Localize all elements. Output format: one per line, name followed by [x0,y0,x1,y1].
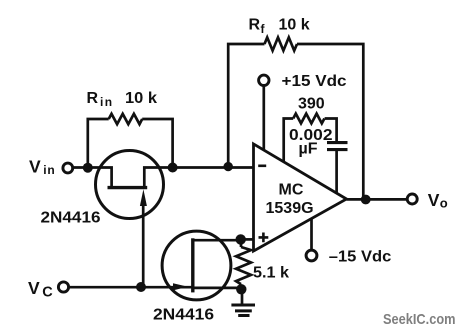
resistor 390 zigzag [293,114,324,124]
svg-text:R: R [249,17,261,34]
wire -15 Vdc stub from U1 bottom edge [310,219,313,250]
wire Vin input to JFET Q1 source lead [74,168,112,187]
terminal Vo [407,194,417,204]
svg-text:+15 Vdc: +15 Vdc [282,73,347,90]
JFET Q2 channel bar [191,238,194,292]
svg-text:SeekIC.com: SeekIC.com [383,311,456,328]
ground symbol [231,305,255,316]
junction dot Rin right / Q1 drain [168,163,178,173]
wire + node to U1 noninverting input [241,238,254,241]
svg-text:MC: MC [279,181,304,198]
wire to ground [241,289,244,303]
capacitor 0.002 uF plates [327,143,348,150]
JFET Q2 circle [162,231,231,300]
svg-text:in: in [100,95,113,109]
plus sign U1 [259,233,269,243]
junction dot ground node [236,284,246,294]
wire JFET Q1 drain lead to inverting input of U1 [144,168,253,188]
svg-text:1539G: 1539G [266,200,314,217]
svg-text:o: o [440,195,448,210]
svg-text:in: in [43,163,55,177]
svg-text:2N4416: 2N4416 [153,307,214,324]
resistor 390 compensation [284,119,337,162]
svg-text:R: R [87,90,99,107]
svg-text:10 k: 10 k [125,90,157,107]
resistor Rin zigzag [109,114,143,124]
svg-text:2N4416: 2N4416 [41,210,101,227]
svg-text:V: V [28,278,40,298]
JFET Q2 gate arrowhead [173,283,188,290]
resistor Rin 10 k loop [88,119,173,168]
resistor Rf zigzag [265,37,297,50]
wire JFET Q2 drain lead to + node [193,239,241,242]
svg-text:V: V [428,190,440,210]
JFET Q1 channel bar [108,186,148,189]
svg-text:V: V [29,157,41,177]
svg-text:–15 Vdc: –15 Vdc [329,249,392,266]
svg-text:390: 390 [298,95,325,112]
wire capacitor to U1 top edge [335,151,338,194]
terminal Vc [58,282,68,292]
wire output [347,198,408,201]
junction dot Vin/Rin left [83,163,93,173]
op-amp U1 MC1539G [254,144,347,251]
terminal Vin [63,163,73,173]
svg-text:µF: µF [299,141,318,158]
feedback loop wire Rf [228,44,363,200]
svg-text:C: C [42,285,53,301]
minus sign U1 [258,165,266,168]
svg-text:10 k: 10 k [279,17,310,34]
wire JFET Q2 source lead to ground node [193,287,242,290]
wire +15 Vdc to U1 top edge [262,86,265,151]
junction dot + node [236,234,246,244]
junction dot Vc / Q1 gate [136,282,146,292]
terminal +15 Vdc [259,75,269,85]
terminal -15 Vdc [306,250,317,261]
wire Vc to JFET Q2 gate [70,286,193,289]
resistor 5.1 k leads [240,239,243,289]
resistor 5.1 k zigzag [236,247,251,284]
junction dot output [361,195,371,205]
JFET Q1 circle [96,151,164,219]
JFET Q1 gate arrow [142,198,145,287]
svg-text:5.1 k: 5.1 k [253,265,289,282]
junction dot inverting node / feedback [224,162,233,171]
